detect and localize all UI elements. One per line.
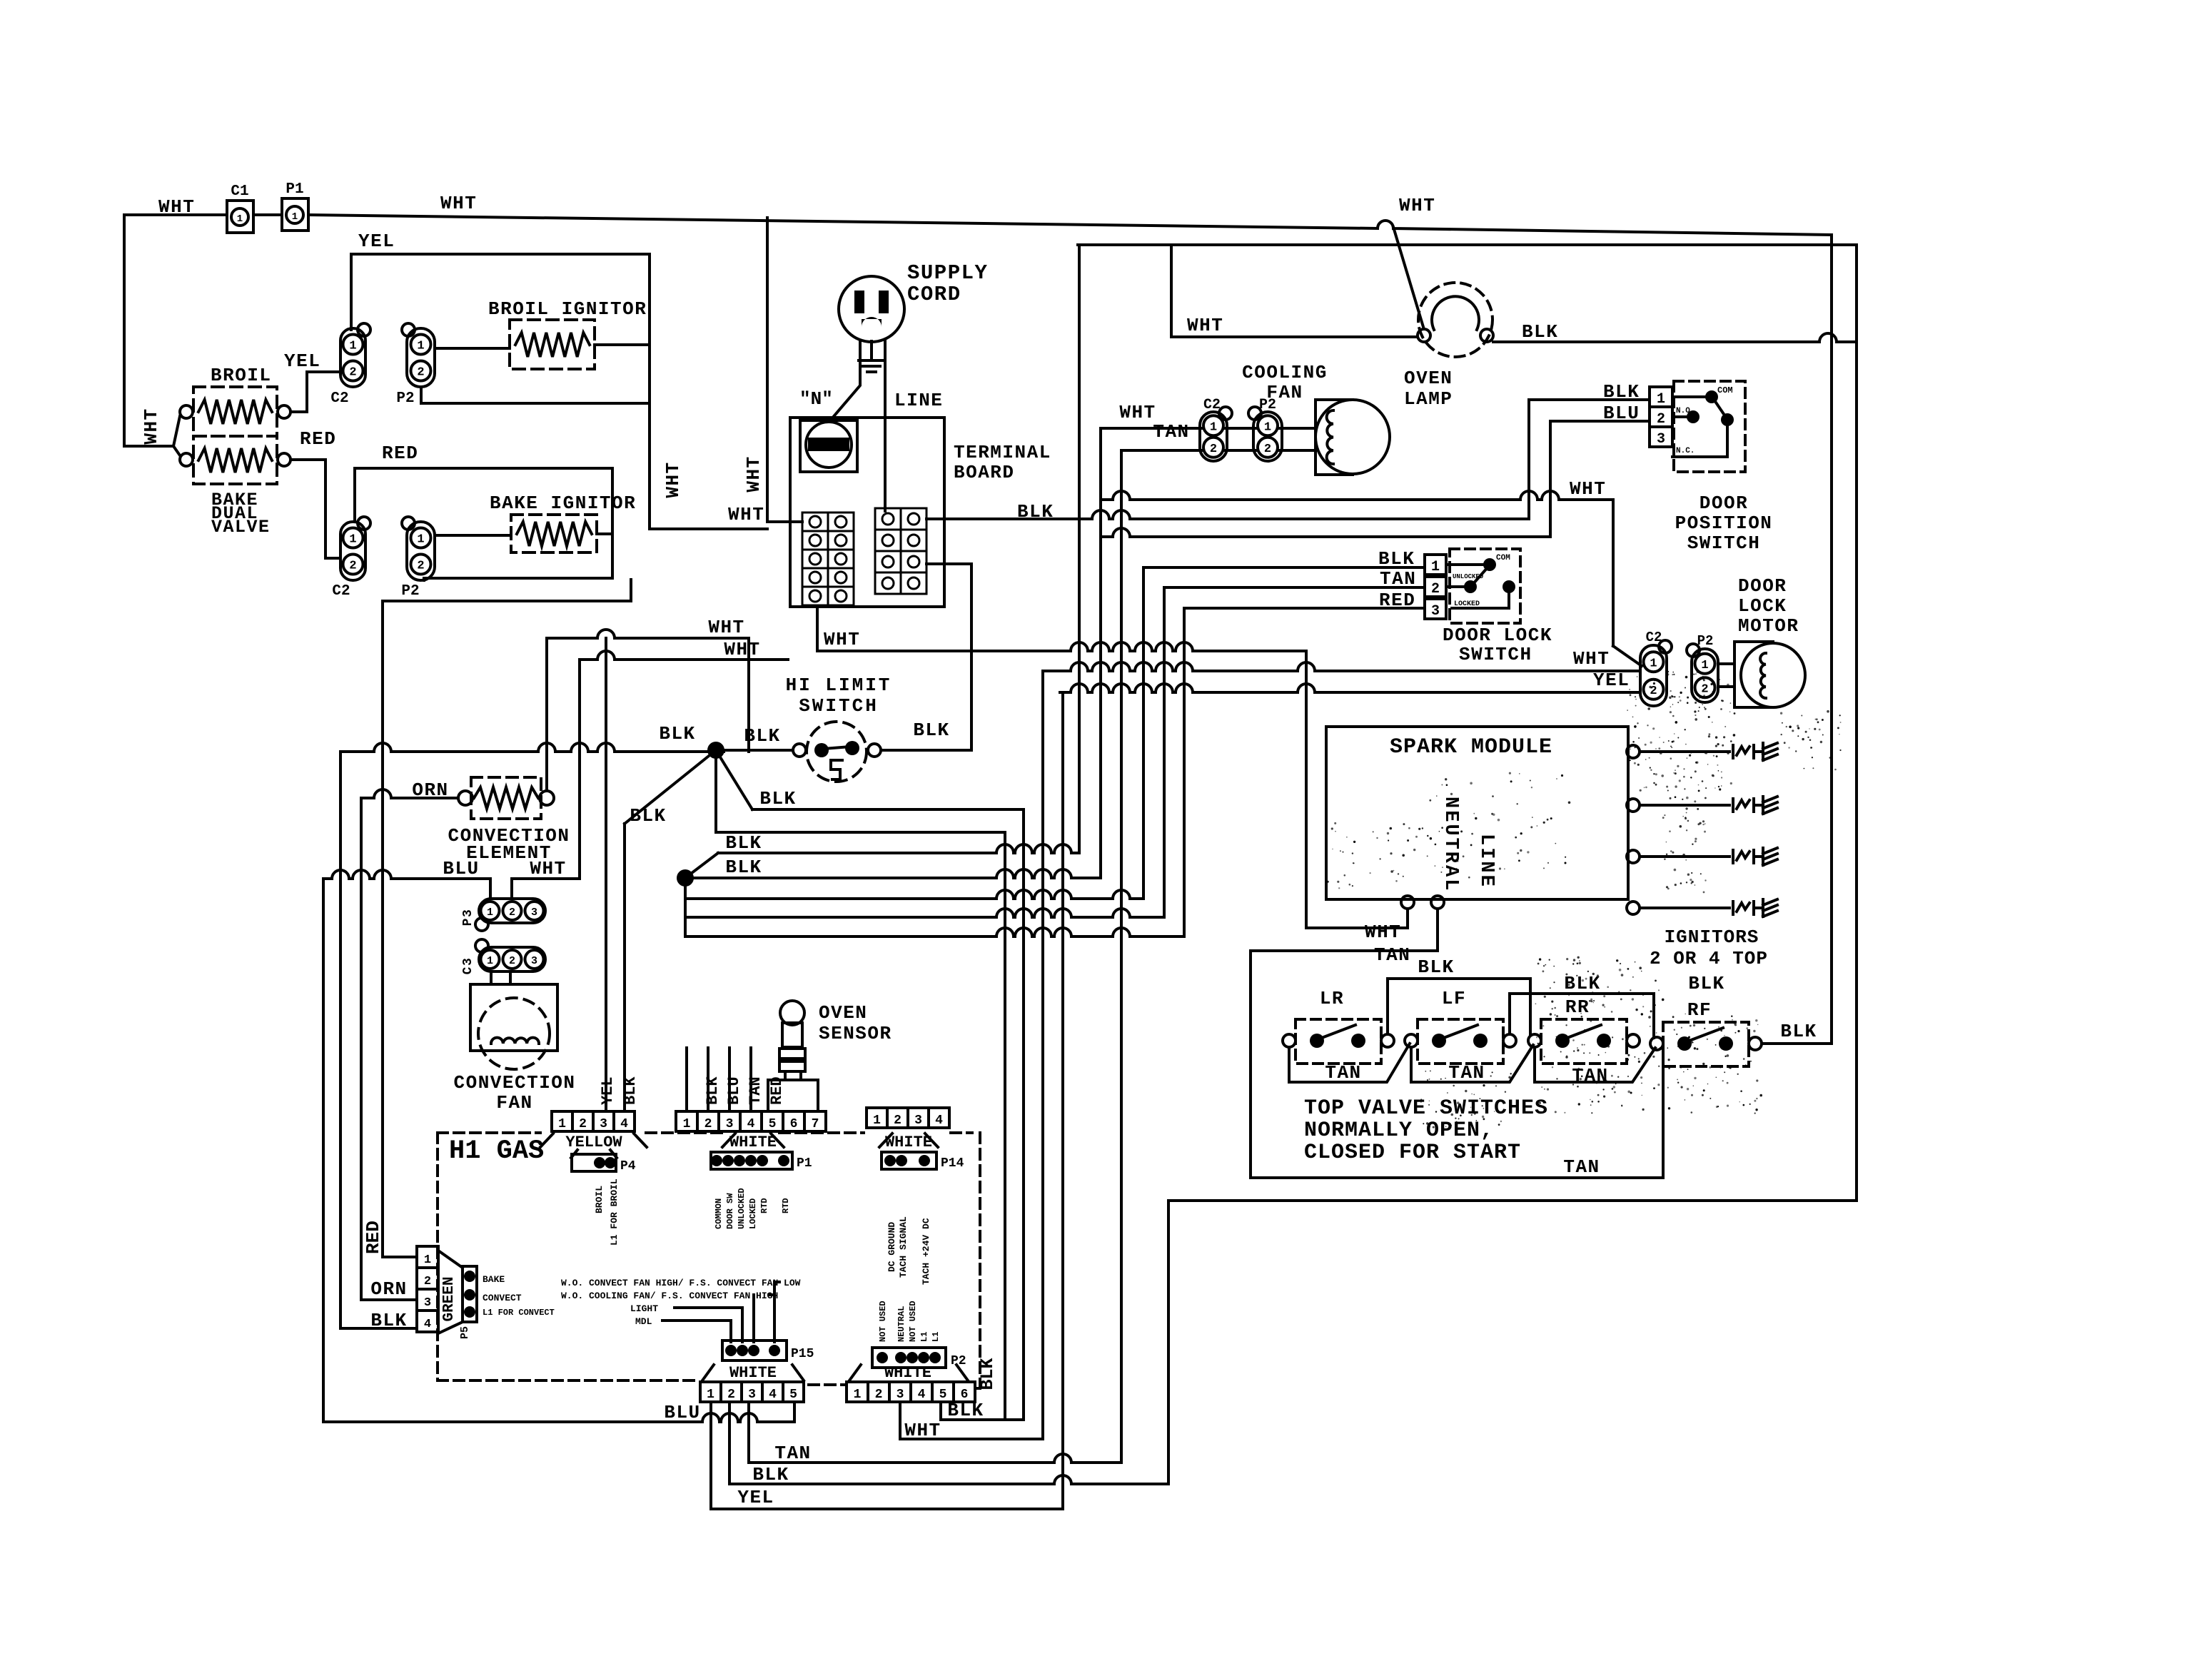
svg-text:RED: RED: [363, 1221, 384, 1254]
svg-text:1: 1: [487, 907, 493, 919]
svg-text:1: 1: [1650, 657, 1657, 670]
svg-text:WHT: WHT: [530, 858, 566, 879]
svg-text:1: 1: [683, 1117, 691, 1131]
svg-text:WHT: WHT: [141, 408, 162, 444]
svg-text:3: 3: [600, 1117, 607, 1131]
svg-text:CLOSED FOR START: CLOSED FOR START: [1304, 1141, 1521, 1165]
svg-text:LINE: LINE: [894, 390, 943, 411]
svg-text:2 OR 4 TOP: 2 OR 4 TOP: [1650, 948, 1768, 969]
svg-text:5: 5: [939, 1388, 947, 1402]
svg-text:6: 6: [790, 1117, 798, 1131]
svg-text:1: 1: [558, 1117, 566, 1131]
svg-text:BLK: BLK: [1603, 381, 1640, 403]
svg-text:BROIL IGNITOR: BROIL IGNITOR: [488, 298, 647, 320]
svg-text:WHT: WHT: [824, 629, 860, 650]
svg-text:1: 1: [854, 1388, 862, 1402]
svg-text:BLK: BLK: [947, 1400, 984, 1421]
svg-text:4: 4: [620, 1117, 628, 1131]
svg-text:P4: P4: [620, 1159, 636, 1173]
svg-text:MOTOR: MOTOR: [1738, 615, 1799, 637]
svg-text:3: 3: [531, 907, 537, 919]
svg-text:4: 4: [747, 1117, 755, 1131]
svg-text:WHT: WHT: [440, 193, 477, 214]
svg-text:N.O.: N.O.: [1676, 407, 1695, 415]
svg-text:1: 1: [424, 1253, 431, 1267]
svg-text:LOCKED: LOCKED: [1454, 600, 1480, 608]
svg-text:SWITCH: SWITCH: [1459, 644, 1532, 665]
svg-text:C2: C2: [330, 390, 348, 407]
svg-text:WHITE: WHITE: [729, 1134, 777, 1151]
svg-text:SWITCH: SWITCH: [799, 695, 879, 717]
svg-text:FAN: FAN: [496, 1092, 532, 1114]
svg-text:DC GROUND: DC GROUND: [887, 1222, 897, 1272]
svg-text:2: 2: [349, 560, 356, 573]
svg-text:DOOR: DOOR: [1700, 493, 1748, 514]
svg-text:DOOR: DOOR: [1738, 575, 1787, 597]
svg-text:WHT: WHT: [662, 461, 684, 498]
svg-text:YEL: YEL: [599, 1076, 617, 1105]
svg-text:L1: L1: [919, 1332, 929, 1342]
svg-text:TAN: TAN: [747, 1076, 764, 1105]
svg-text:2: 2: [424, 1275, 431, 1288]
svg-text:1: 1: [349, 340, 356, 353]
svg-text:3: 3: [914, 1114, 922, 1128]
svg-text:YELLOW: YELLOW: [565, 1134, 622, 1151]
svg-text:P2: P2: [396, 390, 414, 407]
svg-text:W.O. CONVECT FAN HIGH/ F.S. CO: W.O. CONVECT FAN HIGH/ F.S. CONVECT FAN …: [561, 1278, 801, 1288]
svg-text:CONVECTION: CONVECTION: [453, 1072, 575, 1094]
svg-text:RED: RED: [768, 1076, 786, 1105]
svg-text:BAKE: BAKE: [483, 1274, 505, 1285]
svg-text:P3: P3: [461, 909, 475, 927]
svg-text:C2: C2: [1203, 397, 1221, 413]
svg-text:YEL: YEL: [737, 1487, 774, 1508]
svg-text:BLU: BLU: [1603, 403, 1640, 424]
svg-text:YEL: YEL: [1593, 670, 1630, 691]
svg-text:3: 3: [1657, 431, 1665, 448]
svg-text:BLK: BLK: [1522, 321, 1558, 343]
svg-text:2: 2: [727, 1388, 735, 1402]
svg-text:COM: COM: [1717, 385, 1733, 395]
svg-text:WHT: WHT: [724, 639, 760, 660]
svg-text:TAN: TAN: [1563, 1156, 1600, 1178]
svg-text:IGNITORS: IGNITORS: [1665, 927, 1759, 948]
svg-text:SUPPLY: SUPPLY: [907, 261, 988, 285]
svg-text:LAMP: LAMP: [1404, 388, 1453, 410]
svg-text:P2: P2: [1259, 397, 1276, 413]
svg-text:BLK: BLK: [704, 1076, 722, 1105]
svg-text:1: 1: [417, 340, 424, 353]
svg-text:COMMON: COMMON: [714, 1198, 724, 1229]
svg-text:BLK: BLK: [977, 1358, 998, 1390]
svg-text:2: 2: [417, 366, 424, 380]
svg-text:P2: P2: [1697, 633, 1714, 649]
svg-text:2: 2: [579, 1117, 587, 1131]
svg-text:1: 1: [237, 213, 243, 225]
svg-text:1: 1: [707, 1388, 714, 1402]
svg-text:TACH +24V DC: TACH +24V DC: [921, 1218, 931, 1285]
svg-text:LINE: LINE: [1475, 834, 1497, 889]
svg-text:BLK: BLK: [1564, 973, 1600, 994]
svg-text:2: 2: [1431, 581, 1440, 597]
svg-text:5: 5: [769, 1117, 777, 1131]
svg-text:1: 1: [487, 955, 493, 967]
svg-text:P15: P15: [791, 1347, 814, 1361]
svg-text:2: 2: [417, 560, 424, 573]
svg-text:TACH SIGNAL: TACH SIGNAL: [898, 1216, 909, 1278]
svg-text:7: 7: [812, 1117, 819, 1131]
svg-text:LOCKED: LOCKED: [748, 1198, 758, 1229]
svg-text:TERMINAL: TERMINAL: [954, 442, 1051, 463]
svg-text:LF: LF: [1442, 988, 1466, 1009]
svg-text:RR: RR: [1565, 996, 1590, 1018]
svg-text:2: 2: [875, 1388, 883, 1402]
svg-text:2: 2: [509, 955, 515, 967]
svg-text:WHITE: WHITE: [885, 1134, 932, 1151]
svg-text:2: 2: [704, 1117, 712, 1131]
svg-text:CONVECT: CONVECT: [483, 1293, 522, 1303]
svg-text:WHITE: WHITE: [729, 1364, 777, 1382]
svg-text:POSITION: POSITION: [1675, 513, 1773, 534]
svg-text:NOT USED: NOT USED: [908, 1301, 918, 1342]
svg-text:RTD: RTD: [781, 1198, 791, 1213]
svg-text:3: 3: [531, 955, 537, 967]
svg-text:C1: C1: [231, 183, 248, 200]
svg-text:P5: P5: [459, 1326, 471, 1339]
svg-text:WHT: WHT: [1570, 478, 1606, 500]
svg-text:2: 2: [1701, 682, 1708, 696]
svg-text:NORMALLY OPEN,: NORMALLY OPEN,: [1304, 1119, 1494, 1143]
svg-text:ORN: ORN: [370, 1278, 407, 1300]
svg-text:1: 1: [1701, 659, 1708, 672]
svg-text:WHT: WHT: [708, 617, 744, 638]
svg-text:YEL: YEL: [284, 350, 320, 372]
svg-text:P2: P2: [401, 583, 419, 600]
svg-text:BLU: BLU: [725, 1076, 743, 1105]
svg-text:RF: RF: [1687, 999, 1712, 1021]
svg-text:TAN: TAN: [774, 1443, 811, 1464]
svg-text:5: 5: [789, 1388, 797, 1402]
svg-text:NEUTRAL: NEUTRAL: [1440, 797, 1461, 892]
svg-text:SPARK MODULE: SPARK MODULE: [1390, 735, 1552, 759]
svg-text:NOT USED: NOT USED: [878, 1301, 888, 1342]
svg-text:BOARD: BOARD: [954, 462, 1015, 483]
svg-text:BLK: BLK: [659, 723, 695, 744]
svg-text:TAN: TAN: [1448, 1062, 1485, 1084]
svg-text:MDL: MDL: [635, 1316, 652, 1327]
svg-text:2: 2: [509, 907, 515, 919]
svg-text:3: 3: [726, 1117, 734, 1131]
svg-text:WHT: WHT: [1573, 648, 1610, 670]
svg-text:GREEN: GREEN: [441, 1276, 458, 1321]
svg-text:TOP VALVE SWITCHES: TOP VALVE SWITCHES: [1304, 1096, 1548, 1121]
svg-text:WHITE: WHITE: [884, 1364, 931, 1382]
svg-text:C2: C2: [332, 583, 350, 600]
svg-text:2: 2: [349, 366, 356, 380]
svg-text:1: 1: [1264, 420, 1271, 434]
svg-text:L1 FOR BROIL: L1 FOR BROIL: [609, 1178, 620, 1246]
svg-text:BLK: BLK: [1780, 1021, 1817, 1042]
svg-text:CORD: CORD: [907, 283, 961, 306]
svg-text:4: 4: [769, 1388, 777, 1402]
svg-text:BLU: BLU: [664, 1402, 700, 1423]
svg-text:UNLOCKED: UNLOCKED: [737, 1188, 747, 1229]
svg-text:RTD: RTD: [759, 1198, 769, 1213]
svg-text:SENSOR: SENSOR: [819, 1023, 892, 1044]
svg-text:1: 1: [417, 533, 424, 547]
svg-text:BLK: BLK: [752, 1464, 789, 1485]
svg-text:WHT: WHT: [728, 504, 764, 525]
svg-text:4: 4: [918, 1388, 926, 1402]
svg-text:COM: COM: [1496, 554, 1510, 562]
svg-text:LIGHT: LIGHT: [630, 1303, 658, 1314]
svg-text:2: 2: [894, 1114, 902, 1128]
svg-text:WHT: WHT: [743, 455, 764, 492]
svg-text:OVEN: OVEN: [819, 1002, 867, 1024]
svg-text:3: 3: [748, 1388, 756, 1402]
svg-text:TAN: TAN: [1374, 944, 1410, 966]
svg-text:VALVE: VALVE: [211, 517, 271, 537]
svg-text:TAN: TAN: [1153, 421, 1189, 443]
svg-text:WHT: WHT: [1119, 402, 1156, 423]
svg-text:COOLING: COOLING: [1242, 362, 1328, 383]
svg-text:YEL: YEL: [358, 231, 395, 252]
svg-text:WHT: WHT: [1365, 922, 1401, 943]
svg-text:P1: P1: [286, 181, 303, 198]
svg-text:BLK: BLK: [622, 1076, 640, 1105]
svg-text:L1: L1: [931, 1332, 941, 1342]
svg-text:4: 4: [935, 1114, 943, 1128]
svg-text:2: 2: [1657, 411, 1665, 428]
svg-text:NEUTRAL: NEUTRAL: [897, 1306, 906, 1342]
svg-text:C3: C3: [461, 957, 475, 975]
svg-text:C2: C2: [1646, 630, 1662, 645]
svg-text:TAN: TAN: [1572, 1065, 1608, 1086]
svg-text:"N": "N": [799, 388, 833, 410]
svg-text:1: 1: [1210, 420, 1217, 434]
svg-text:HI LIMIT: HI LIMIT: [786, 675, 892, 696]
svg-text:2: 2: [1264, 443, 1271, 456]
svg-text:BLK: BLK: [630, 805, 666, 827]
svg-text:4: 4: [424, 1318, 431, 1331]
svg-text:P1: P1: [797, 1156, 812, 1171]
svg-text:2: 2: [1210, 443, 1217, 456]
svg-text:1: 1: [349, 533, 356, 547]
svg-text:LOCK: LOCK: [1738, 595, 1787, 617]
svg-text:3: 3: [1431, 603, 1440, 620]
svg-text:1: 1: [1657, 391, 1665, 408]
svg-text:P14: P14: [941, 1156, 964, 1171]
svg-text:SWITCH: SWITCH: [1687, 532, 1761, 554]
svg-text:LR: LR: [1320, 988, 1344, 1009]
svg-text:BLK: BLK: [725, 832, 762, 854]
svg-text:1: 1: [1431, 559, 1440, 575]
svg-text:BLK: BLK: [913, 720, 949, 741]
svg-text:TAN: TAN: [1325, 1062, 1361, 1084]
svg-text:W.O. COOLING FAN/ F.S. CONVECT: W.O. COOLING FAN/ F.S. CONVECT FAN HIGH: [561, 1291, 778, 1301]
svg-text:RED: RED: [382, 443, 418, 464]
svg-text:BLK: BLK: [1418, 956, 1454, 978]
svg-text:WHT: WHT: [1187, 315, 1223, 336]
svg-text:UNLOCKED: UNLOCKED: [1453, 573, 1484, 580]
svg-text:BLK: BLK: [1688, 973, 1724, 994]
svg-text:DOOR SW: DOOR SW: [725, 1193, 735, 1229]
svg-text:3: 3: [424, 1296, 431, 1310]
svg-text:N.C.: N.C.: [1676, 447, 1695, 455]
svg-text:BLU: BLU: [443, 858, 479, 879]
svg-text:3: 3: [897, 1388, 904, 1402]
svg-text:BROIL: BROIL: [594, 1186, 605, 1213]
svg-text:RED: RED: [300, 428, 336, 450]
svg-text:BLK: BLK: [725, 857, 762, 878]
svg-text:1: 1: [292, 211, 298, 223]
svg-text:BROIL: BROIL: [211, 365, 272, 386]
svg-text:WHT: WHT: [1399, 195, 1435, 216]
svg-text:BAKE IGNITOR: BAKE IGNITOR: [490, 493, 636, 514]
svg-text:BLK: BLK: [759, 788, 796, 809]
svg-text:L1 FOR CONVECT: L1 FOR CONVECT: [483, 1308, 555, 1318]
svg-text:OVEN: OVEN: [1404, 368, 1453, 389]
svg-text:1: 1: [873, 1114, 881, 1128]
svg-text:H1 GAS: H1 GAS: [449, 1136, 544, 1166]
svg-text:DOOR LOCK: DOOR LOCK: [1443, 625, 1552, 646]
